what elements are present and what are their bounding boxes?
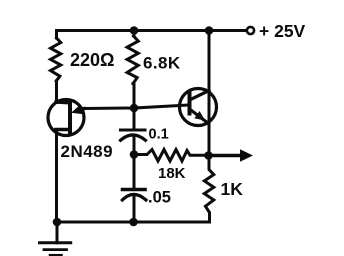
svg-text:220Ω: 220Ω	[70, 50, 114, 70]
svg-text:+ 25V: + 25V	[259, 21, 306, 41]
svg-text:2N489: 2N489	[61, 142, 114, 161]
svg-text:.05: .05	[148, 189, 171, 207]
svg-text:6.8K: 6.8K	[143, 54, 181, 73]
svg-text:1K: 1K	[221, 179, 244, 199]
svg-text:18K: 18K	[158, 165, 186, 182]
svg-text:0.1: 0.1	[149, 127, 169, 143]
